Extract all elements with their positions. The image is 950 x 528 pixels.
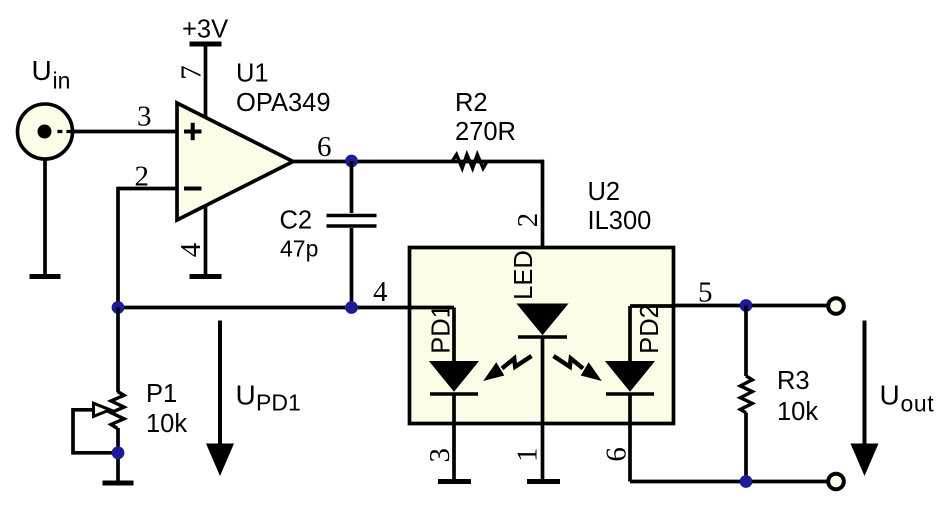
svg-text:4: 4 <box>175 242 207 257</box>
svg-text:PD1: PD1 <box>256 390 301 416</box>
svg-text:IL300: IL300 <box>588 207 652 235</box>
P1 wiper arrow <box>73 403 118 453</box>
svg-text:1: 1 <box>512 448 544 463</box>
U1 plus input marking <box>184 123 202 140</box>
potentiometer P1 <box>111 392 124 429</box>
wire: R3 top <box>744 306 748 377</box>
light arrow to PD1 <box>483 356 531 381</box>
wire: U1 output node 6 <box>291 160 544 164</box>
node: junction C2/feedback rail <box>345 301 358 314</box>
output terminal top <box>828 298 844 314</box>
label U1 OPA349 <box>236 60 331 118</box>
arrow Uout <box>851 321 879 477</box>
label UPD1 <box>236 380 301 416</box>
ground (under U1 pin 4) <box>190 274 222 279</box>
svg-text:out: out <box>901 391 935 417</box>
label Uout <box>880 380 935 417</box>
node: junction feedback/P1 <box>112 301 125 314</box>
svg-text:10k: 10k <box>777 398 818 426</box>
svg-text:R3: R3 <box>777 367 810 395</box>
photodiode PD1 <box>430 308 478 482</box>
svg-text:3: 3 <box>137 101 152 133</box>
svg-text:7: 7 <box>176 65 208 80</box>
node: junction at U1 output / C2 top <box>345 155 358 168</box>
node: junction pin5/R3 <box>740 299 753 312</box>
resistor R3 <box>740 376 752 413</box>
wire: pin 5 rail to output terminal <box>672 304 828 308</box>
wire: R3 bottom <box>744 413 748 482</box>
svg-text:LED: LED <box>510 250 538 300</box>
svg-text:+3V: +3V <box>182 16 228 44</box>
label R3 10k <box>777 367 818 426</box>
svg-text:U: U <box>236 380 256 411</box>
node: junction P1 wiper/bottom <box>112 446 125 459</box>
photodiode PD2 <box>606 306 654 482</box>
svg-text:270R: 270R <box>455 118 516 146</box>
+3V supply bar <box>190 42 222 47</box>
svg-text:OPA349: OPA349 <box>236 89 331 117</box>
wire: V+ supply to U1 pin 7 <box>204 44 208 118</box>
ground (U2 pin 1) <box>527 479 560 484</box>
svg-text:PD2: PD2 <box>636 304 664 354</box>
U1 minus input marking <box>184 187 202 191</box>
arrow UPD1 <box>206 321 234 477</box>
label Uin <box>32 55 71 94</box>
svg-text:6: 6 <box>317 131 332 163</box>
wire: C2 bottom to feedback rail <box>350 228 354 308</box>
svg-text:3: 3 <box>424 448 456 463</box>
svg-text:U2: U2 <box>588 178 621 206</box>
wire: R2 to U2 LED anode pin 2 <box>541 160 545 249</box>
svg-text:R2: R2 <box>455 89 488 117</box>
label C2 47p <box>280 207 319 262</box>
wire: U1 pin 4 to ground <box>204 205 208 276</box>
svg-text:10k: 10k <box>146 410 187 438</box>
svg-text:47p: 47p <box>280 236 318 262</box>
LED inside U2 <box>518 304 568 481</box>
svg-text:C2: C2 <box>280 207 313 235</box>
optocoupler U2 body <box>410 248 674 424</box>
wire: node down to P1 <box>116 308 120 393</box>
wire: jack to U1 non-inverting input <box>72 130 178 134</box>
label R2 270R <box>455 89 516 146</box>
output terminal bottom <box>828 474 844 490</box>
wire: jack to ground <box>43 158 47 276</box>
label U2 IL300 <box>588 178 652 235</box>
svg-text:6: 6 <box>600 447 632 462</box>
light arrow to PD2 <box>554 356 602 381</box>
ground (under Uin jack) <box>30 274 61 279</box>
capacitor C2 <box>327 216 377 227</box>
wire: P1 bottom to ground <box>116 428 120 482</box>
svg-text:4: 4 <box>373 276 388 308</box>
svg-text:U: U <box>880 380 900 411</box>
svg-text:PD1: PD1 <box>427 304 455 354</box>
resistor R2 <box>452 155 487 169</box>
ground (under P1) <box>103 481 134 486</box>
svg-text:2: 2 <box>512 213 544 228</box>
svg-text:U1: U1 <box>236 60 269 88</box>
svg-text:U: U <box>32 55 52 86</box>
svg-text:in: in <box>53 68 71 94</box>
op-amp U1 <box>177 103 293 220</box>
svg-text:P1: P1 <box>146 380 177 408</box>
svg-text:2: 2 <box>135 160 150 192</box>
wire: U2 PD2 anode to pin 5 rail <box>630 304 672 308</box>
wire: feedback to U1 inverting input <box>118 187 178 307</box>
wire: bottom output rail <box>630 480 828 484</box>
label P1 10k <box>146 380 187 438</box>
feedback rail: node to U2 PD1 pin 4 <box>116 306 454 310</box>
svg-text:5: 5 <box>698 276 713 308</box>
wire: node 6 down to C2 <box>350 161 354 213</box>
connector J1 (U_in input jack) <box>18 104 73 159</box>
ground (U2 pin 3) <box>438 479 471 484</box>
node: junction R3/bottom rail <box>740 475 753 488</box>
